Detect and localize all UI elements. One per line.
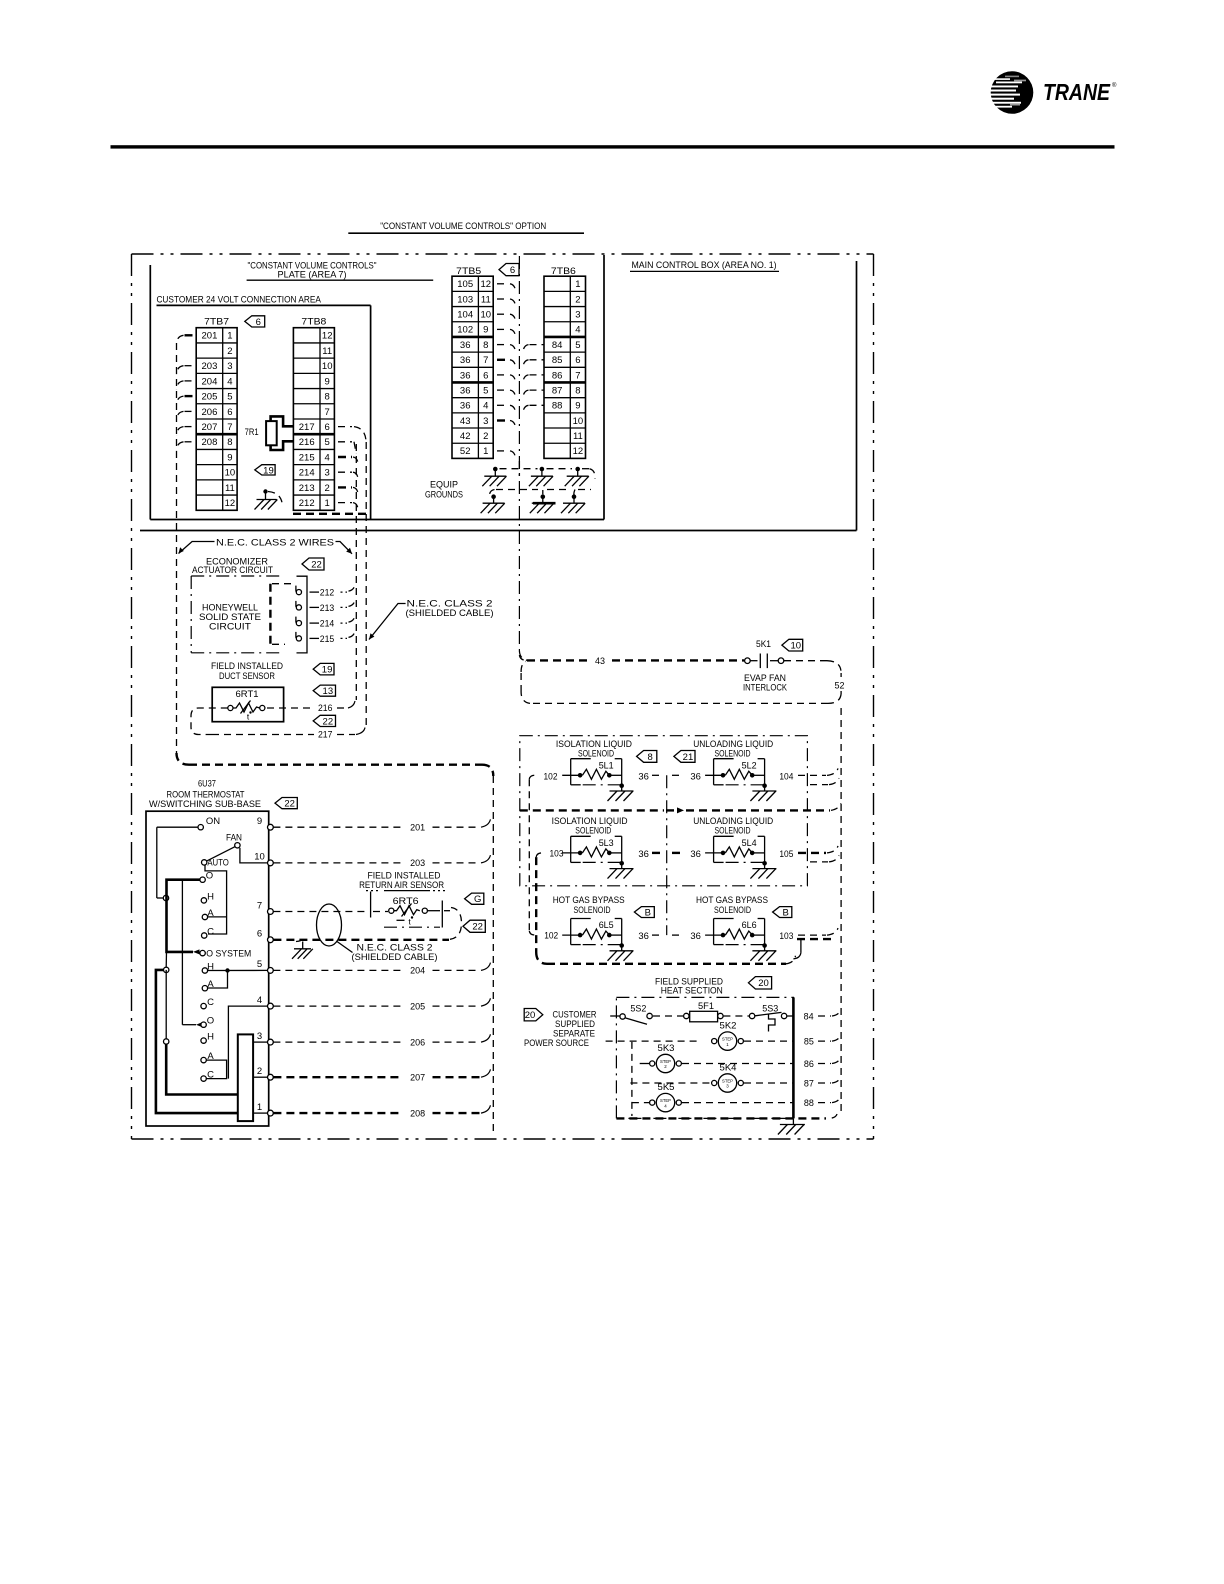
svg-text:88: 88 bbox=[552, 401, 563, 412]
svg-text:10: 10 bbox=[573, 416, 584, 427]
svg-text:6: 6 bbox=[510, 265, 515, 276]
svg-text:6: 6 bbox=[227, 407, 232, 418]
svg-text:10: 10 bbox=[254, 852, 265, 863]
svg-text:7: 7 bbox=[325, 407, 330, 418]
heat ground bbox=[792, 1118, 794, 1124]
svg-text:3: 3 bbox=[325, 468, 330, 479]
svg-text:86: 86 bbox=[804, 1059, 814, 1070]
svg-text:2: 2 bbox=[227, 346, 232, 357]
svg-text:3: 3 bbox=[257, 1031, 262, 1042]
flag 22 economizer bbox=[302, 558, 324, 570]
svg-text:216: 216 bbox=[299, 437, 315, 448]
svg-text:7: 7 bbox=[227, 422, 232, 433]
svg-text:20: 20 bbox=[758, 978, 769, 989]
svg-text:7: 7 bbox=[257, 900, 262, 911]
wire 6 dashed bbox=[273, 939, 449, 941]
row3 bottom bus bbox=[547, 963, 786, 965]
svg-text:5F1: 5F1 bbox=[698, 1001, 714, 1012]
wire 102 row3 bbox=[529, 931, 535, 935]
main control box bbox=[856, 261, 858, 531]
svg-text:6L5: 6L5 bbox=[599, 920, 614, 930]
svg-text:2: 2 bbox=[575, 294, 580, 305]
svg-text:9: 9 bbox=[575, 401, 580, 412]
outer dash-dot border bbox=[132, 253, 874, 255]
svg-text:4: 4 bbox=[483, 401, 488, 412]
wire 86 bbox=[640, 1063, 651, 1065]
junction circle 3 bbox=[165, 970, 167, 1039]
wire bundle 201-208 bbox=[176, 343, 178, 753]
bus 103 vertical bbox=[535, 857, 537, 952]
wire 103 hook row3 bbox=[798, 934, 826, 936]
svg-text:7TB5: 7TB5 bbox=[456, 266, 481, 277]
wire 85 bbox=[606, 1040, 701, 1042]
svg-text:"CONSTANT VOLUME CONTROLS" OPT: "CONSTANT VOLUME CONTROLS" OPTION bbox=[380, 221, 546, 232]
svg-text:105: 105 bbox=[779, 849, 793, 860]
svg-text:105: 105 bbox=[457, 279, 473, 290]
flag 19 in customer area bbox=[255, 465, 275, 475]
flag 22 thermostat bbox=[275, 798, 297, 809]
svg-text:7TB8: 7TB8 bbox=[301, 317, 326, 328]
svg-text:4: 4 bbox=[325, 452, 330, 463]
shield cable ellipse bbox=[317, 904, 342, 946]
svg-text:12: 12 bbox=[322, 331, 333, 342]
svg-text:85: 85 bbox=[804, 1036, 814, 1047]
wire 88 bbox=[632, 1102, 651, 1104]
svg-text:36: 36 bbox=[690, 771, 701, 782]
svg-text:5K4: 5K4 bbox=[720, 1063, 737, 1074]
svg-text:36: 36 bbox=[638, 849, 649, 860]
wire A-C lower bbox=[206, 1060, 226, 1079]
svg-text:SOLENOID: SOLENOID bbox=[715, 826, 751, 837]
svg-text:7: 7 bbox=[483, 355, 488, 366]
wire 216 bbox=[267, 707, 314, 709]
svg-text:7R1: 7R1 bbox=[245, 427, 259, 438]
svg-text:4: 4 bbox=[575, 325, 580, 336]
svg-text:O: O bbox=[206, 871, 213, 882]
svg-text:O: O bbox=[207, 1016, 214, 1027]
thick feed to subbase connector bbox=[166, 1044, 238, 1095]
subbase connector bbox=[238, 1034, 253, 1121]
svg-text:5L4: 5L4 bbox=[742, 838, 757, 848]
Trane logo bbox=[986, 71, 1117, 114]
svg-text:86: 86 bbox=[552, 370, 563, 381]
5S3 linkage staircase bbox=[769, 1014, 776, 1032]
svg-text:5S2: 5S2 bbox=[630, 1003, 646, 1014]
svg-text:104: 104 bbox=[457, 310, 473, 321]
wire 102 row1 bbox=[529, 775, 535, 779]
stub 6L6 link bbox=[800, 940, 802, 953]
wire 217 loop bbox=[191, 708, 228, 735]
svg-text:5: 5 bbox=[483, 385, 488, 396]
svg-text:207: 207 bbox=[202, 422, 218, 433]
heat section dash-dot box bbox=[616, 997, 793, 1118]
heat section bottom thick bbox=[616, 1117, 826, 1119]
thick line O to O SYSTEM bbox=[167, 880, 201, 952]
svg-text:205: 205 bbox=[202, 392, 218, 403]
svg-text:6U37: 6U37 bbox=[198, 779, 216, 790]
svg-text:CUSTOMER 24 VOLT CONNECTION AR: CUSTOMER 24 VOLT CONNECTION AREA bbox=[156, 295, 321, 306]
svg-text:21: 21 bbox=[683, 752, 694, 763]
svg-text:36: 36 bbox=[638, 931, 649, 942]
solenoid 5L3 bbox=[570, 836, 572, 862]
solenoid 5L1 bbox=[570, 759, 572, 785]
sensor dashed bubble right bbox=[450, 908, 462, 940]
svg-text:DUCT SENSOR: DUCT SENSOR bbox=[219, 671, 275, 682]
svg-text:214: 214 bbox=[299, 468, 315, 479]
svg-text:215: 215 bbox=[299, 452, 315, 463]
svg-text:43: 43 bbox=[460, 416, 471, 427]
svg-text:2: 2 bbox=[257, 1066, 262, 1077]
svg-text:8: 8 bbox=[483, 340, 488, 351]
wire stubs left of 7TB7 bbox=[185, 334, 197, 336]
svg-text:1: 1 bbox=[575, 279, 580, 290]
36 bus jumpers row1 bbox=[652, 774, 661, 776]
svg-text:6: 6 bbox=[256, 317, 261, 328]
svg-text:H: H bbox=[207, 891, 214, 902]
header rule bbox=[111, 145, 1115, 148]
thermostat field-wiring dashed enclosure bbox=[177, 753, 190, 765]
svg-text:5L2: 5L2 bbox=[742, 760, 757, 770]
svg-text:102: 102 bbox=[544, 771, 558, 782]
equip ground row B bbox=[491, 494, 496, 499]
sensor wire to bubble bbox=[444, 910, 450, 912]
svg-text:10: 10 bbox=[481, 310, 492, 321]
svg-text:87: 87 bbox=[552, 385, 563, 396]
flag 19 duct sensor bbox=[313, 663, 334, 675]
wire stubs right of 7TB8 bbox=[338, 426, 352, 428]
flag 20 customer bbox=[524, 1009, 543, 1021]
svg-text:2: 2 bbox=[325, 483, 330, 494]
svg-text:PLATE (AREA 7): PLATE (AREA 7) bbox=[278, 269, 347, 280]
ground 5L2 bbox=[762, 783, 767, 788]
svg-text:1: 1 bbox=[483, 446, 488, 457]
thermistor 6RT6 bbox=[389, 908, 394, 913]
shield bar right bbox=[441, 901, 443, 928]
svg-text:5: 5 bbox=[257, 959, 262, 970]
svg-text:SOLENOID: SOLENOID bbox=[575, 826, 611, 837]
leader arrow to cable bbox=[369, 604, 406, 640]
svg-text:4: 4 bbox=[257, 995, 262, 1006]
svg-text:TRANE: TRANE bbox=[1043, 79, 1111, 105]
switch pole ON feed bbox=[156, 827, 158, 898]
svg-text:215: 215 bbox=[320, 634, 335, 645]
ground 5L1 bbox=[619, 783, 624, 788]
svg-text:3: 3 bbox=[575, 310, 580, 321]
svg-text:6: 6 bbox=[257, 929, 262, 940]
svg-text:INTERLOCK: INTERLOCK bbox=[743, 682, 788, 693]
flag B left bbox=[634, 907, 654, 918]
wire 105 hook bbox=[798, 852, 826, 854]
svg-text:11: 11 bbox=[573, 431, 583, 442]
svg-text:103: 103 bbox=[779, 931, 793, 942]
svg-text:212: 212 bbox=[320, 588, 335, 599]
svg-text:7TB7: 7TB7 bbox=[204, 317, 229, 328]
thermistor 6RT1 symbol bbox=[228, 705, 233, 710]
flag 8 bbox=[637, 751, 657, 763]
svg-text:C: C bbox=[207, 997, 214, 1008]
svg-text:204: 204 bbox=[202, 376, 218, 387]
svg-text:207: 207 bbox=[410, 1073, 425, 1084]
svg-text:42: 42 bbox=[460, 431, 471, 442]
svg-text:102: 102 bbox=[544, 931, 558, 942]
svg-text:104: 104 bbox=[779, 771, 793, 782]
svg-text:85: 85 bbox=[552, 355, 563, 366]
solenoid 6L6 bbox=[713, 919, 715, 945]
svg-text:206: 206 bbox=[410, 1037, 425, 1048]
flag 22 sensor bbox=[463, 920, 485, 932]
svg-text:216: 216 bbox=[318, 703, 333, 714]
svg-text:88: 88 bbox=[804, 1098, 814, 1109]
wire bundle V2 217 bbox=[365, 442, 367, 728]
svg-text:3: 3 bbox=[227, 361, 232, 372]
wire 7 dashed bbox=[273, 911, 368, 913]
ground 6L5 bbox=[619, 943, 624, 948]
svg-text:6: 6 bbox=[575, 355, 580, 366]
equip ground row A bbox=[493, 467, 498, 472]
svg-text:(SHIELDED CABLE): (SHIELDED CABLE) bbox=[406, 608, 494, 619]
svg-text:87: 87 bbox=[804, 1078, 814, 1089]
svg-text:9: 9 bbox=[227, 452, 232, 463]
svg-text:9: 9 bbox=[257, 816, 262, 827]
flag 6 near 7TB5 bbox=[499, 264, 519, 276]
svg-text:1: 1 bbox=[257, 1102, 262, 1113]
svg-text:204: 204 bbox=[410, 966, 425, 977]
svg-text:52: 52 bbox=[460, 446, 471, 457]
svg-text:A: A bbox=[207, 908, 214, 919]
economizer terminals 212-215 bbox=[295, 586, 297, 592]
svg-text:5K2: 5K2 bbox=[720, 1021, 737, 1032]
svg-text:10: 10 bbox=[322, 361, 333, 372]
svg-text:36: 36 bbox=[690, 849, 701, 860]
equip ground row A jumpers bbox=[500, 468, 538, 470]
wire 103 row2 bbox=[536, 853, 542, 857]
svg-text:FAN: FAN bbox=[226, 832, 242, 843]
solenoid 6L5 bbox=[570, 919, 572, 945]
svg-text:13: 13 bbox=[323, 686, 334, 697]
svg-text:6RT1: 6RT1 bbox=[236, 689, 259, 700]
svg-text:103: 103 bbox=[457, 294, 473, 305]
flag 10 bbox=[782, 639, 803, 651]
svg-text:®: ® bbox=[1112, 82, 1117, 89]
shield bar left bbox=[370, 892, 372, 918]
solenoid 5L4 bbox=[713, 836, 715, 862]
svg-text:36: 36 bbox=[460, 355, 471, 366]
svg-text:201: 201 bbox=[410, 823, 425, 834]
svg-text:213: 213 bbox=[299, 483, 315, 494]
stub hook row1b bbox=[810, 784, 828, 786]
svg-text:208: 208 bbox=[202, 437, 218, 448]
svg-text:W/SWITCHING SUB-BASE: W/SWITCHING SUB-BASE bbox=[149, 799, 261, 810]
svg-text:36: 36 bbox=[460, 385, 471, 396]
svg-text:N.E.C. CLASS 2 WIRES: N.E.C. CLASS 2 WIRES bbox=[216, 537, 334, 548]
svg-text:MAIN CONTROL BOX (AREA NO. 1): MAIN CONTROL BOX (AREA NO. 1) bbox=[632, 259, 777, 270]
svg-text:217: 217 bbox=[299, 422, 315, 433]
wire 104 hook bbox=[798, 774, 826, 776]
svg-text:RETURN AIR SENSOR: RETURN AIR SENSOR bbox=[359, 880, 444, 891]
svg-text:O SYSTEM: O SYSTEM bbox=[206, 948, 251, 959]
interlock loop bbox=[784, 660, 827, 662]
svg-text:4: 4 bbox=[227, 376, 232, 387]
svg-text:POWER SOURCE: POWER SOURCE bbox=[524, 1038, 589, 1049]
flag 6 near 7TB7 bbox=[245, 316, 265, 327]
svg-text:36: 36 bbox=[690, 931, 701, 942]
svg-text:19: 19 bbox=[322, 665, 333, 676]
svg-text:20: 20 bbox=[525, 1010, 536, 1021]
svg-text:12: 12 bbox=[225, 498, 236, 509]
svg-text:GROUNDS: GROUNDS bbox=[425, 490, 463, 501]
svg-text:36: 36 bbox=[460, 340, 471, 351]
connector stubs to terminals bbox=[253, 1041, 268, 1043]
wire stubs left of 7TB6 bbox=[530, 344, 545, 346]
flag 22 duct sensor bbox=[313, 715, 335, 726]
svg-text:205: 205 bbox=[410, 1001, 425, 1012]
svg-text:22: 22 bbox=[472, 922, 483, 933]
svg-text:CIRCUIT: CIRCUIT bbox=[209, 622, 251, 633]
svg-text:11: 11 bbox=[225, 483, 235, 494]
svg-text:(SHIELDED CABLE): (SHIELDED CABLE) bbox=[352, 952, 438, 963]
svg-text:22: 22 bbox=[323, 716, 334, 727]
svg-text:B: B bbox=[645, 907, 651, 918]
svg-text:1: 1 bbox=[325, 498, 330, 509]
plate area box bbox=[149, 265, 151, 520]
thermostat box bbox=[146, 811, 269, 1126]
36 bus jumpers row2 bbox=[652, 852, 661, 854]
svg-text:ON: ON bbox=[206, 816, 220, 827]
ground on wire 6 bbox=[296, 939, 303, 942]
flag G bbox=[465, 893, 484, 904]
svg-text:8: 8 bbox=[575, 385, 580, 396]
ground 5L3 bbox=[619, 861, 624, 866]
svg-text:36: 36 bbox=[638, 771, 649, 782]
svg-text:SOLENOID: SOLENOID bbox=[574, 905, 611, 916]
svg-text:6RT6: 6RT6 bbox=[393, 896, 419, 907]
svg-text:214: 214 bbox=[320, 619, 335, 630]
svg-text:36: 36 bbox=[460, 401, 471, 412]
svg-text:7TB6: 7TB6 bbox=[551, 266, 576, 277]
inner dashed enclosure bbox=[631, 1042, 633, 1116]
svg-text:B: B bbox=[783, 907, 789, 918]
equip ground row B jumpers bbox=[490, 490, 495, 495]
wire AUTO to A C bbox=[205, 865, 227, 934]
field bus vertical right bbox=[840, 708, 842, 1114]
wire terminal 4 to lower pair bbox=[228, 1006, 267, 1079]
svg-text:8: 8 bbox=[648, 752, 653, 763]
stub hook row2b bbox=[810, 861, 828, 863]
svg-text:G: G bbox=[474, 894, 481, 905]
honeywell inner dashed boundary bbox=[269, 584, 271, 645]
svg-text:7: 7 bbox=[575, 370, 580, 381]
svg-text:1: 1 bbox=[227, 331, 232, 342]
36 bus vertical bbox=[666, 775, 668, 935]
svg-text:201: 201 bbox=[202, 331, 218, 342]
svg-text:208: 208 bbox=[410, 1108, 425, 1119]
svg-text:6L6: 6L6 bbox=[742, 920, 757, 930]
svg-text:19: 19 bbox=[263, 465, 274, 476]
wire 87 bbox=[630, 1082, 711, 1084]
svg-text:5K5: 5K5 bbox=[658, 1082, 675, 1093]
shield bracket bbox=[297, 576, 308, 653]
svg-text:5: 5 bbox=[575, 340, 580, 351]
svg-text:ACTUATOR CIRCUIT: ACTUATOR CIRCUIT bbox=[192, 565, 273, 576]
svg-text:5K1: 5K1 bbox=[756, 639, 771, 650]
wire 208 feed bbox=[156, 970, 238, 1113]
svg-text:213: 213 bbox=[320, 603, 335, 614]
svg-text:203: 203 bbox=[202, 361, 218, 372]
wire bundle V1 212-216 bbox=[355, 444, 357, 700]
svg-text:103: 103 bbox=[550, 848, 564, 859]
svg-text:6: 6 bbox=[325, 422, 330, 433]
svg-text:22: 22 bbox=[311, 559, 322, 570]
svg-text:206: 206 bbox=[202, 407, 218, 418]
svg-text:9: 9 bbox=[325, 376, 330, 387]
center equip ground bus bbox=[518, 256, 520, 651]
junction circle 2 bbox=[165, 952, 167, 967]
svg-text:C: C bbox=[207, 927, 214, 938]
solenoid 5L2 bbox=[713, 759, 715, 785]
flag B right bbox=[773, 907, 792, 918]
leader left arrow bbox=[179, 542, 215, 554]
wire 43 bbox=[519, 655, 527, 660]
svg-text:52: 52 bbox=[835, 680, 845, 691]
svg-text:5: 5 bbox=[227, 392, 232, 403]
wire stubs right of 7TB5 bbox=[497, 283, 509, 285]
wire 84 entry bbox=[610, 1015, 620, 1017]
economizer dash-dot box bbox=[190, 576, 192, 653]
svg-text:212: 212 bbox=[299, 498, 315, 509]
heat bus thick vertical bbox=[792, 997, 795, 1118]
flag 20 heat bbox=[748, 977, 771, 989]
svg-text:217: 217 bbox=[318, 730, 333, 741]
36 bus jumpers row3 bbox=[652, 934, 661, 936]
svg-text:203: 203 bbox=[410, 858, 425, 869]
svg-text:6: 6 bbox=[483, 370, 488, 381]
ground 6L6 bbox=[762, 943, 767, 948]
svg-text:5L3: 5L3 bbox=[599, 838, 614, 848]
svg-text:11: 11 bbox=[322, 346, 332, 357]
svg-text:SOLENOID: SOLENOID bbox=[714, 905, 751, 916]
svg-text:9: 9 bbox=[483, 325, 488, 336]
svg-text:8: 8 bbox=[227, 437, 232, 448]
svg-text:12: 12 bbox=[573, 446, 584, 457]
bus 102 vertical bbox=[528, 779, 530, 931]
svg-text:43: 43 bbox=[595, 656, 605, 667]
svg-text:10: 10 bbox=[791, 641, 802, 652]
svg-text:84: 84 bbox=[804, 1011, 814, 1022]
svg-text:10: 10 bbox=[225, 468, 236, 479]
svg-text:12: 12 bbox=[481, 279, 492, 290]
leader right arrow bbox=[336, 542, 353, 554]
svg-text:84: 84 bbox=[552, 340, 563, 351]
svg-text:102: 102 bbox=[457, 325, 473, 336]
dashed wires to field terminals bbox=[273, 826, 403, 828]
svg-text:22: 22 bbox=[284, 799, 295, 810]
svg-text:H: H bbox=[207, 1032, 214, 1043]
svg-text:11: 11 bbox=[481, 294, 491, 305]
svg-text:2: 2 bbox=[483, 431, 488, 442]
wire 52 bus thick dashed bbox=[520, 809, 664, 811]
ground in customer area bbox=[263, 489, 267, 493]
thick dashed cable edge bbox=[293, 513, 368, 515]
svg-text:5K3: 5K3 bbox=[658, 1043, 675, 1054]
ground 5L4 bbox=[762, 861, 767, 866]
svg-text:5L1: 5L1 bbox=[599, 760, 614, 770]
wire FAN to terminal 10 bbox=[240, 848, 268, 863]
flag 21 bbox=[674, 751, 695, 763]
svg-text:5: 5 bbox=[325, 437, 330, 448]
svg-text:HEAT SECTION: HEAT SECTION bbox=[661, 986, 723, 997]
svg-text:3: 3 bbox=[483, 416, 488, 427]
leader from ellipse bbox=[337, 942, 353, 953]
